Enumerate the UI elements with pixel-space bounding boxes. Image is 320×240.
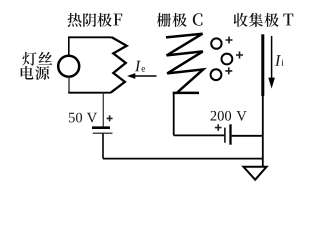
ion 1 circle <box>211 38 221 48</box>
label Ii ion current <box>275 55 284 66</box>
wire: 200V battery to collector <box>232 135 263 137</box>
filament supply source (circle) <box>58 56 79 77</box>
ground symbol <box>243 167 266 180</box>
label 收集极T (collector T) <box>234 13 294 27</box>
label 50 V <box>69 113 97 123</box>
wire: 50V battery bottom lead <box>102 133 104 158</box>
ion 2 plus <box>236 52 243 59</box>
ion 3 circle <box>211 69 222 80</box>
label 200 V <box>211 111 247 121</box>
grid C zigzag electrode <box>166 34 203 93</box>
battery B2 200V plates <box>225 124 231 144</box>
ion 2 circle <box>222 54 233 65</box>
wire: circle bottom lead <box>68 77 70 93</box>
ion 1 plus <box>226 37 233 44</box>
wire: grid bottom lead <box>173 93 175 135</box>
wire: collector lead down <box>262 95 264 167</box>
wire: top horizontal to cathode <box>68 36 112 38</box>
wire: bottom-left horizontal <box>68 92 111 94</box>
label Ie emission current <box>135 61 145 72</box>
wire: grid to 200V battery <box>174 134 225 136</box>
label + polarity of 50V <box>107 115 113 121</box>
ion current arrow Ii <box>268 36 275 89</box>
battery B1 50V plates <box>92 128 113 134</box>
label 灯丝电源 (filament supply) <box>21 52 53 80</box>
ion 3 plus <box>225 67 232 74</box>
label 栅极C (grid C) <box>157 13 203 27</box>
wire: 50V battery top lead <box>102 93 104 127</box>
collector T electrode plate <box>261 34 264 96</box>
label + polarity of 200V <box>215 124 222 131</box>
wire: circle top lead <box>68 37 70 56</box>
cathode F filament zigzag <box>111 37 127 92</box>
wire: bottom horizontal bus <box>103 158 263 160</box>
label 热阴极F (hot cathode F) <box>68 13 123 27</box>
emission current arrow Ie <box>127 73 157 79</box>
